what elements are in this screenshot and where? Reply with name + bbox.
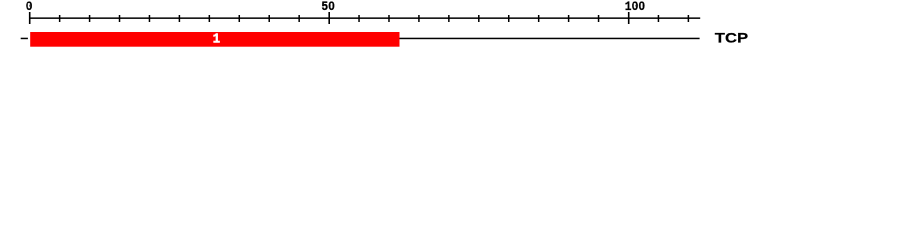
svg-text:50: 50 xyxy=(321,0,335,14)
svg-text:TCP: TCP xyxy=(715,30,748,46)
svg-text:1: 1 xyxy=(213,31,221,47)
